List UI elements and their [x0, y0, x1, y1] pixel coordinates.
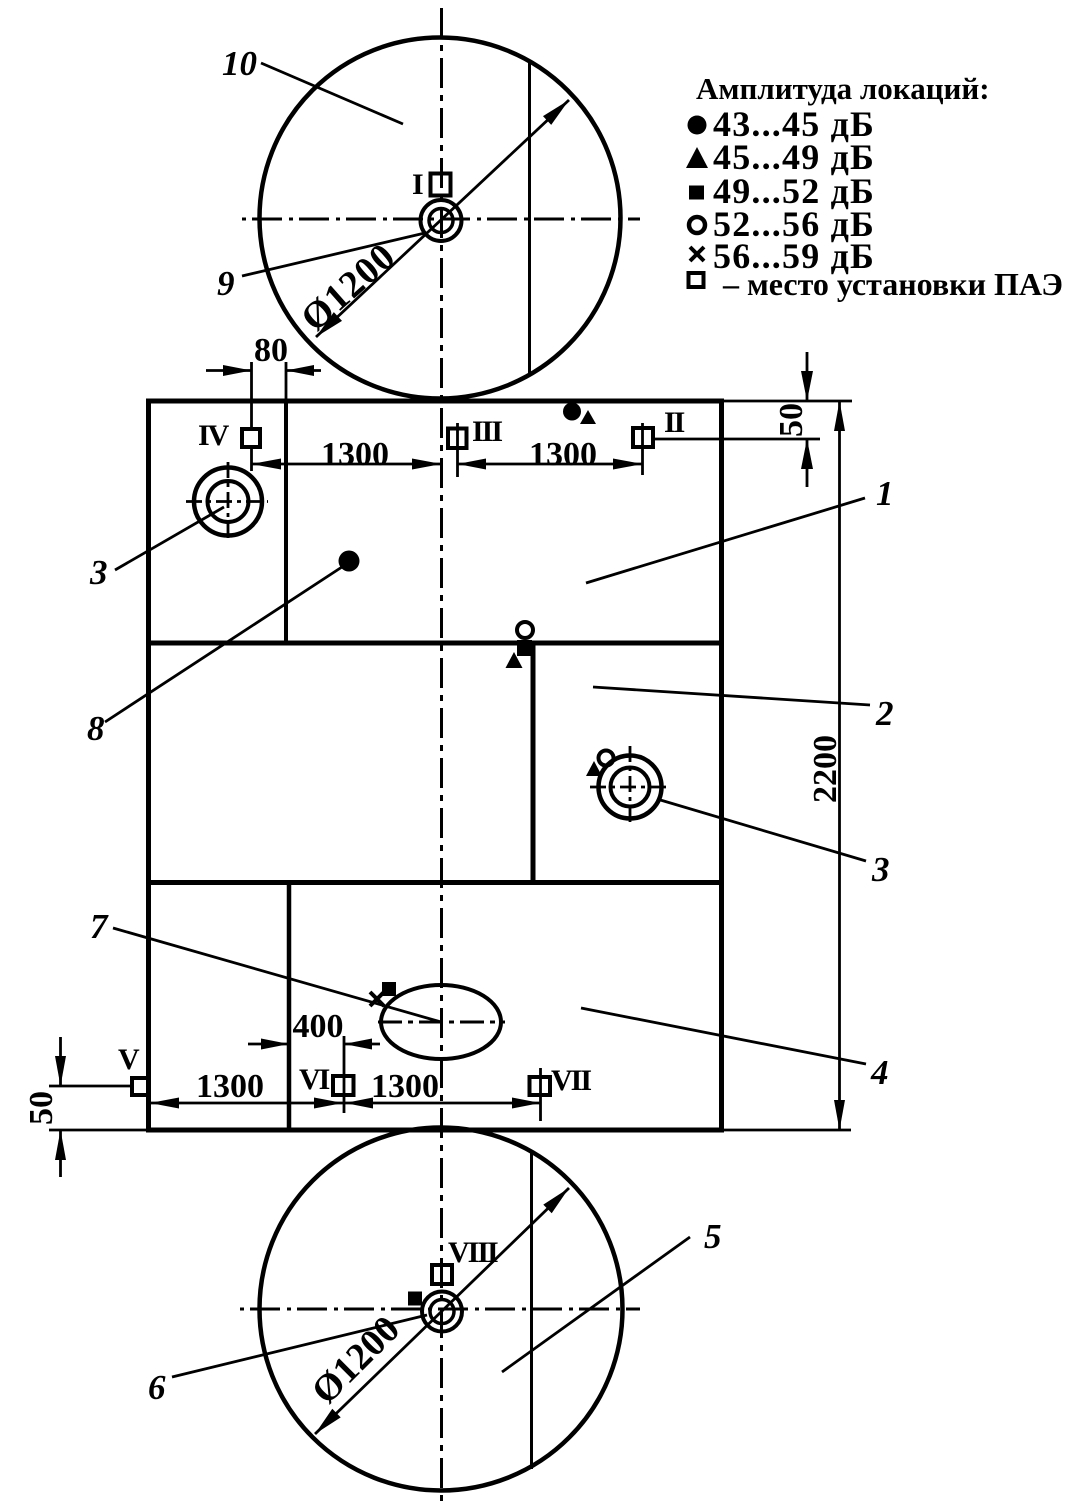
top head chord weld line	[528, 62, 531, 375]
svg-text:– место установки ПАЭ: – место установки ПАЭ	[722, 266, 1063, 302]
80 dim line right tail	[286, 369, 321, 372]
80 dim line left tail	[206, 369, 252, 372]
top fitting inner circle	[429, 209, 453, 233]
AE marker filled square near ellipse	[382, 982, 396, 996]
svg-text:V: V	[118, 1043, 140, 1076]
sensor V square	[132, 1078, 149, 1095]
manhole horizontal centerline	[378, 1021, 505, 1024]
svg-text:VII: VII	[551, 1064, 591, 1097]
weld seam C vertical middle	[531, 643, 536, 883]
arrowhead right	[613, 459, 643, 470]
dim 400 left tail	[248, 1043, 289, 1046]
svg-text:50: 50	[773, 403, 810, 437]
sensor VI square	[333, 1076, 354, 1095]
dim 400 right tail	[344, 1043, 380, 1046]
sensor III square	[448, 429, 467, 449]
sensor VIII square	[432, 1265, 452, 1284]
AE marker filled square on seam B	[517, 640, 532, 656]
svg-text:1300: 1300	[321, 436, 389, 473]
nozzle top-left outer circle (pos 3)	[194, 468, 262, 536]
legend triangle symbol	[686, 147, 708, 168]
sensor VII extension line	[539, 1068, 542, 1121]
svg-text:7: 7	[90, 907, 109, 946]
leader 8	[105, 565, 345, 722]
sensor VII square	[530, 1077, 551, 1095]
AE marker filled triangle near right nozzle	[586, 761, 602, 776]
arrowhead left	[458, 459, 487, 470]
svg-text:5: 5	[704, 1217, 722, 1256]
diameter dim line top (Ø1200)	[316, 100, 569, 337]
vertical main centerline	[440, 8, 443, 1506]
top fitting outer circle (pos 9)	[421, 200, 462, 241]
top head horizontal centerline	[242, 218, 640, 221]
leader 1	[586, 498, 865, 583]
leader 3 right	[657, 799, 866, 861]
legend filled circle symbol	[688, 116, 707, 135]
leader 9	[242, 233, 425, 276]
nozzle right vertical centerline	[629, 746, 632, 827]
bottom fitting inner circle	[430, 1300, 454, 1324]
arrowhead right	[412, 459, 442, 470]
svg-text:VI: VI	[299, 1063, 330, 1096]
leader 6	[172, 1315, 427, 1377]
svg-text:I: I	[412, 168, 423, 201]
sensor II square	[633, 428, 653, 447]
sensor V attachment line	[49, 1085, 132, 1088]
AE marker filled square near VIII	[408, 1292, 422, 1306]
nozzle top-left inner circle	[208, 481, 249, 522]
AE marker filled triangle below seam B	[506, 652, 523, 668]
bottom head chord weld line	[530, 1151, 533, 1469]
manhole ellipse (pos 7)	[381, 985, 501, 1059]
arrowhead left	[252, 459, 282, 470]
bottom head circle (pos 5)	[260, 1128, 623, 1491]
nozzle right inner circle	[611, 768, 650, 807]
dim 1300 top-left line	[252, 463, 442, 466]
dim 1300 top-right line	[458, 463, 643, 466]
AE marker open circle on seam B	[517, 622, 533, 638]
leader 5	[502, 1237, 690, 1372]
dim 50 right upper arrow	[806, 352, 809, 400]
AE marker filled circle pos 8	[339, 551, 360, 572]
diameter dim line bottom (Ø1200)	[315, 1188, 569, 1434]
leader 7	[113, 928, 441, 1022]
svg-text:1300: 1300	[529, 436, 597, 473]
svg-text:2: 2	[875, 694, 894, 733]
arrowhead down	[834, 1100, 845, 1130]
svg-text:6: 6	[148, 1368, 166, 1407]
nozzle right outer circle (pos 3)	[599, 756, 662, 819]
shell development outline	[149, 401, 722, 1130]
svg-text:50: 50	[23, 1091, 60, 1125]
leader 4	[581, 1008, 866, 1064]
nozzle right horizontal centerline	[590, 786, 670, 789]
80 dim extension line left (through sensor IV)	[250, 362, 253, 427]
nozzle top-left horizontal centerline	[186, 500, 268, 503]
dim 1300 bottom-left line	[150, 1102, 343, 1105]
bottom edge extension left	[49, 1129, 148, 1132]
svg-text:III: III	[472, 415, 502, 448]
dim 50 right lower arrow	[806, 439, 809, 487]
dim 1300 bottom-right line	[345, 1102, 541, 1105]
weld seam B horizontal	[149, 641, 722, 646]
sensor VI extension line	[343, 1036, 346, 1113]
legend open circle symbol	[689, 217, 705, 233]
nozzle top-left vertical centerline	[227, 462, 230, 543]
top edge extension right	[723, 400, 852, 403]
arrowhead top-right	[543, 1188, 569, 1213]
arrowhead up	[834, 401, 845, 431]
dim 50 left upper arrow	[59, 1037, 62, 1086]
svg-text:2200: 2200	[807, 735, 844, 803]
sensor I square	[431, 174, 451, 196]
svg-text:3: 3	[871, 850, 890, 889]
dim 50 left lower arrow	[59, 1130, 62, 1177]
sensor IV extension below	[250, 449, 253, 471]
leader 3 left	[115, 507, 224, 570]
weld seam E vertical lower-left	[287, 883, 292, 1131]
svg-text:Амплитуда локаций:: Амплитуда локаций:	[696, 71, 990, 106]
arrowhead top-right	[543, 100, 569, 125]
svg-text:10: 10	[222, 44, 257, 83]
bottom edge extension right	[723, 1129, 851, 1132]
AE marker x near ellipse	[370, 992, 384, 1006]
sensor IV square	[242, 429, 260, 447]
80 dim arrow left-pointing	[286, 365, 314, 376]
dim 2200 line	[838, 401, 841, 1130]
leader 10	[261, 63, 403, 124]
80 dim extension of seam above shell	[285, 362, 288, 399]
svg-text:80: 80	[254, 332, 288, 369]
bottom fitting outer circle (pos 6)	[422, 1292, 462, 1332]
svg-text:1300: 1300	[371, 1068, 439, 1105]
svg-text:9: 9	[217, 264, 235, 303]
arrowhead bottom-left	[316, 312, 342, 337]
weld seam D horizontal	[149, 880, 722, 885]
svg-text:1: 1	[876, 474, 894, 513]
svg-text:1300: 1300	[196, 1068, 264, 1105]
svg-text:4: 4	[870, 1053, 889, 1092]
svg-text:400: 400	[293, 1008, 344, 1045]
leader 2	[593, 687, 870, 705]
weld seam A vertical upper-left	[284, 401, 288, 643]
bottom head horizontal centerline	[240, 1308, 640, 1311]
legend x symbol	[690, 247, 704, 261]
svg-text:IV: IV	[198, 419, 230, 452]
AE marker filled triangle near II	[580, 410, 596, 424]
legend open square symbol	[689, 273, 704, 287]
sensor III extension line	[456, 423, 459, 477]
arrowhead bottom-left	[315, 1409, 341, 1434]
sensor II attachment line to right	[654, 438, 820, 441]
80 dim arrow right-pointing	[223, 365, 252, 376]
svg-text:II: II	[664, 406, 685, 439]
AE marker open circle near right nozzle	[599, 751, 614, 766]
top head circle (pos 10)	[260, 38, 621, 399]
svg-text:3: 3	[89, 553, 108, 592]
sensor II extension line	[641, 423, 644, 475]
AE marker filled circle near II	[563, 403, 581, 421]
svg-text:8: 8	[87, 709, 105, 748]
legend filled square symbol	[689, 186, 704, 200]
